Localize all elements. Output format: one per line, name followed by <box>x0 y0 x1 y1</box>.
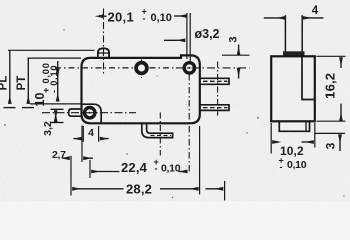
dimension 22,4 line <box>92 171 120 173</box>
terminal tip extension line <box>224 181 226 201</box>
hole centerline across body (left part) <box>55 67 176 69</box>
lower pin slot dashed line <box>203 107 228 109</box>
PL dimension line <box>9 50 11 103</box>
free position reference line (plunger top) <box>8 49 95 51</box>
side view bottom terminal block <box>279 121 309 131</box>
bottom-left hole center dot <box>89 112 91 114</box>
dimension 4 arrows <box>74 138 82 140</box>
PT dimension line <box>27 58 29 104</box>
dimension 3 (side) extension line <box>315 132 345 134</box>
upper right terminal pin <box>200 78 229 84</box>
dimension 10,2 line <box>273 141 279 143</box>
pins vertical dash-dot line <box>217 62 219 116</box>
28,2 right extension line <box>199 126 201 195</box>
dimension 3,2 line <box>51 108 64 110</box>
plunger (front view) <box>98 48 109 58</box>
10,2 left extension line <box>270 123 272 154</box>
scan speckles <box>4 29 345 198</box>
middle hole centerline <box>141 60 143 79</box>
dimension 3 (front, top right) extension line <box>222 54 250 56</box>
left common terminal tab <box>69 109 82 116</box>
dimension 28,2 line <box>73 188 124 190</box>
side view plunger cap <box>283 51 305 56</box>
dimension 2,7 arrows <box>63 157 70 159</box>
plunger inner line <box>98 52 109 54</box>
plunger centerline <box>103 9 105 76</box>
top-right hole vertical extension lines <box>186 13 188 59</box>
dimension 16,2 extension lines <box>317 55 346 57</box>
22,4 left extension line <box>89 160 91 178</box>
side view inner step line <box>302 56 315 99</box>
upper pin slot dashed line <box>203 80 228 82</box>
dimension o3,2 leader arrow <box>164 39 185 41</box>
dimension 16,2 line <box>340 58 342 68</box>
top-right hole horizontal centerline <box>176 67 250 69</box>
middle auxiliary hole ring <box>136 63 147 74</box>
side view plunger extension lines <box>284 15 286 52</box>
side view block end cap line <box>305 121 307 131</box>
dimension 4 (front) extension lines <box>82 126 84 142</box>
bottom terminal centerline <box>159 113 161 156</box>
dimension 20,1 +-0,10 top <box>104 15 107 17</box>
dimension 3 arrows <box>238 45 240 56</box>
2,7 extension line at body left edge <box>81 126 83 163</box>
bottom-left mounting hole ring <box>85 108 95 118</box>
10,2 right extension line <box>314 123 316 148</box>
top-right hole vertical dashed centerline below <box>188 74 190 172</box>
dimension 3 (side) arrow <box>339 135 341 151</box>
operating position reference line <box>28 57 82 59</box>
lower right terminal pin <box>200 105 229 111</box>
side view body <box>271 56 315 121</box>
dimension 10 line <box>57 61 59 101</box>
dimension 4 (side) arrows <box>264 17 285 19</box>
bottom-left hole boss outline <box>82 104 102 123</box>
bottom-left hole horizontal centerline <box>42 112 136 114</box>
bottom J-shaped terminal <box>142 123 173 137</box>
2,7 extension line at tab tip <box>70 156 72 196</box>
top-right hole center dot <box>188 67 190 69</box>
front view body outline <box>82 55 200 123</box>
top-right mounting hole ring <box>184 63 194 73</box>
terminal tip dimension stub <box>206 188 224 190</box>
bottom terminal slot dashed line <box>151 134 172 136</box>
